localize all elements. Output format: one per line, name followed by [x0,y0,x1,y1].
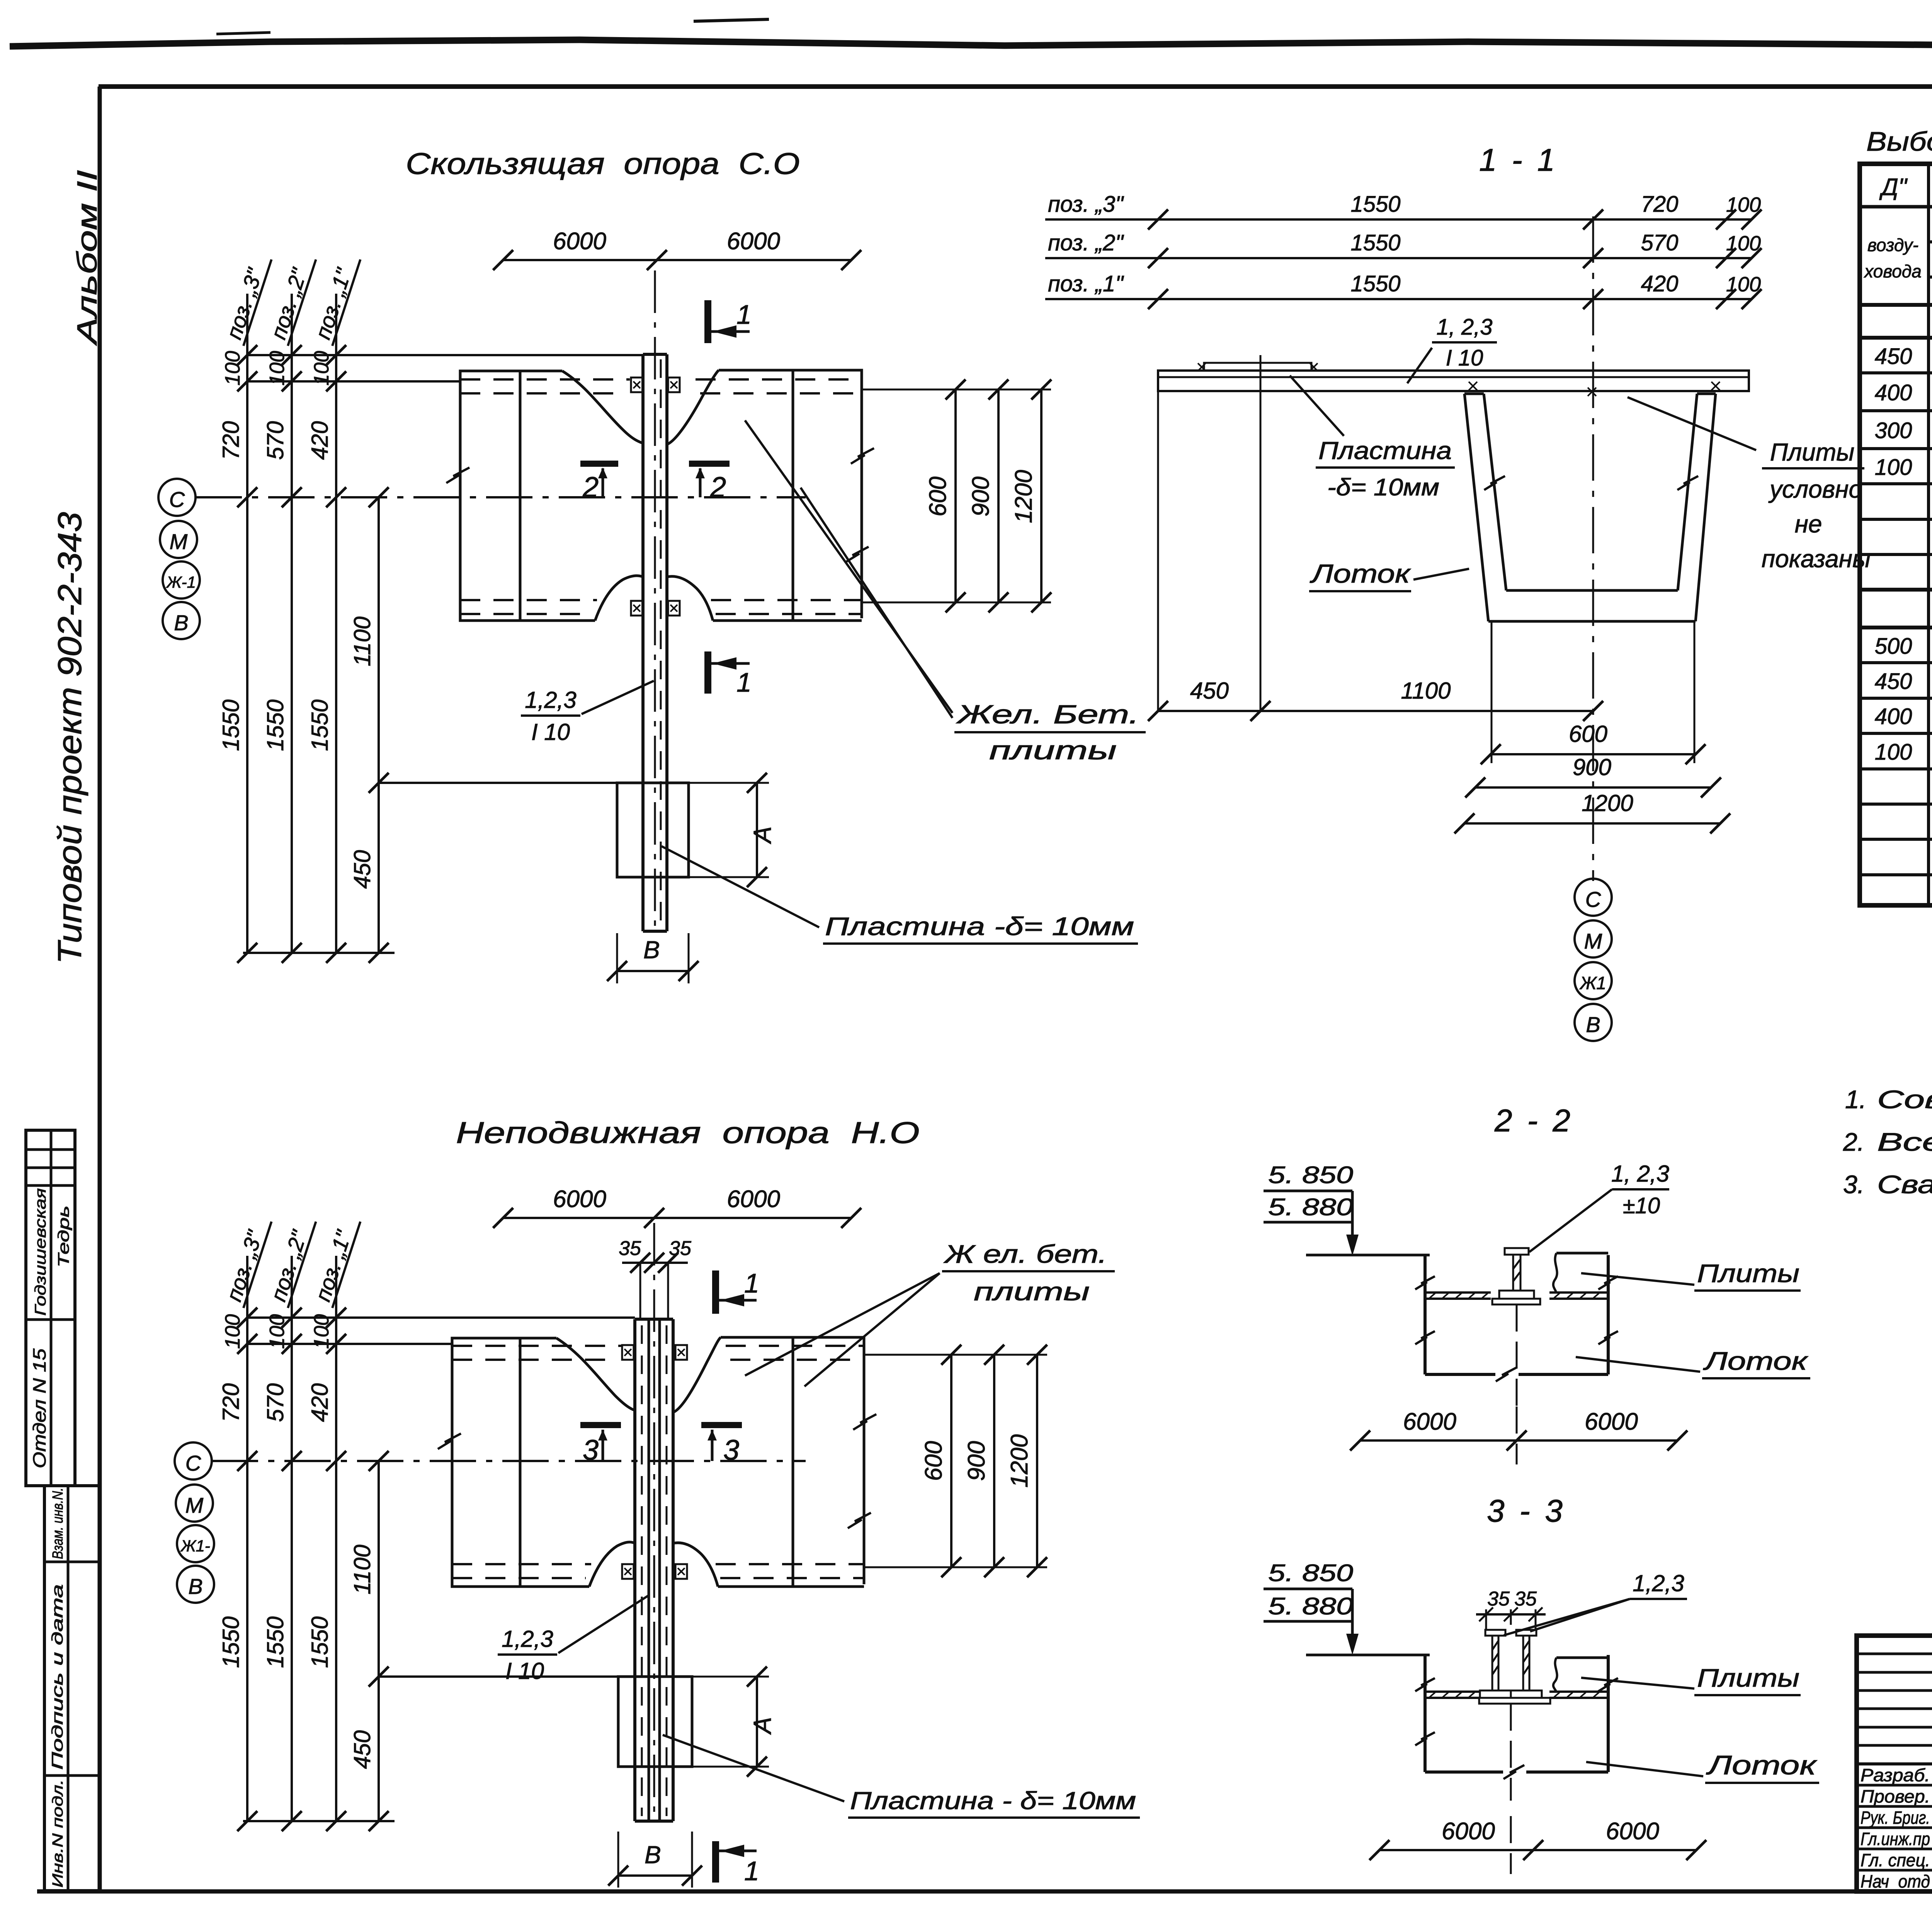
svg-text:450: 450 [1190,678,1229,704]
right dim 1200 (bottom drawing) [1036,1355,1038,1567]
svg-text:С: С [169,487,185,512]
dim chain vertical 1100/450 (bottom drawing) [378,1461,380,1821]
svg-text:1200: 1200 [1010,470,1037,523]
section mark 1 top (bottom drawing) [712,1270,719,1314]
svg-text:3 - 3: 3 - 3 [1487,1493,1566,1529]
svg-text:Гл. спец.: Гл. спец. [1861,1850,1930,1870]
svg-text:Лоток: Лоток [1703,1347,1809,1375]
dim A extension lines (top drawing) [689,782,769,784]
section 1-1 axis circle Ж [1575,962,1612,999]
лоток bottom line (2-2) [1425,1373,1495,1376]
svg-text:Инв.N подл.: Инв.N подл. [50,1779,66,1888]
sidebar stamp lower row lines [44,1561,99,1563]
svg-text:6000: 6000 [1442,1818,1495,1845]
table vertical lines left half [1927,164,1930,905]
svg-text:Все сварные швы h= 6 мм.: Все сварные швы h= 6 мм. [1877,1128,1932,1156]
section 1-1 top cover plate [1204,363,1311,371]
svg-text:6000: 6000 [553,1186,606,1213]
svg-text:Неподвижная опора Н.О: Неподвижная опора Н.О [456,1116,920,1150]
table header horizontal lines [1860,205,1932,209]
svg-text:1: 1 [736,299,752,330]
svg-text:Жел. Бет.: Жел. Бет. [956,700,1139,729]
plate top recess curve left (top drawing) [562,371,643,443]
svg-text:5. 880: 5. 880 [1268,1194,1353,1221]
right dim extension lines (top drawing) [862,389,1051,391]
plate hidden lines top-right (bottom drawing) [726,1345,864,1347]
axis centerline C (bottom drawing) [212,1460,806,1462]
svg-text:450: 450 [1875,669,1912,694]
right dim 600 (top drawing) [954,389,957,602]
svg-text:100: 100 [221,351,244,386]
dim B line (top drawing) [617,970,689,972]
svg-text:6000: 6000 [727,228,780,255]
axis circle C (top drawing) [158,479,196,516]
section 1-1 dim 600 [1491,622,1493,763]
dim chain bottom line (top drawing) [243,952,395,954]
svg-text:2: 2 [582,471,599,503]
axis circle В (bottom drawing) [177,1566,214,1603]
sidebar stamp upper row lines [26,1148,75,1151]
svg-text:3.: 3. [1843,1170,1864,1199]
лоток bottom line (3-3) [1425,1770,1503,1774]
svg-text:720: 720 [218,421,244,460]
svg-text:100: 100 [265,351,289,386]
svg-text:Лоток: Лоток [1706,1750,1818,1780]
svg-text:Разраб.: Разраб. [1861,1765,1930,1785]
svg-text:А: А [748,1717,776,1735]
base plate (2-2) [1492,1299,1540,1304]
svg-text:1550: 1550 [1350,230,1400,255]
svg-text:100: 100 [1726,193,1761,216]
plate hidden lines bottom-right (top drawing) [711,599,862,601]
section 1-1 center axis [1592,216,1594,881]
drawing frame border [99,84,1932,89]
svg-text:720: 720 [1641,192,1679,217]
svg-text:100: 100 [1726,273,1761,296]
svg-text:плиты: плиты [974,1277,1090,1306]
axis circle M (bottom drawing) [176,1485,213,1522]
svg-text:А: А [748,827,776,845]
svg-text:100: 100 [310,351,333,386]
air duct centerlines (bottom drawing) [641,1325,643,1816]
dim A line (bottom drawing) [756,1677,758,1767]
svg-text:Альбом II: Альбом II [72,170,103,346]
svg-text:Плиты: Плиты [1770,438,1854,466]
svg-text:400: 400 [1875,704,1912,729]
svg-text:6000: 6000 [1403,1408,1456,1435]
elevation arrow (2-2) [1351,1191,1354,1242]
svg-text:Совместно с данным см. л.л: Совместно с данным см. л.л. Кж-54÷ 57 [1877,1085,1932,1114]
leader lines Жел.Бет. плиты (top drawing) [745,420,952,713]
rotated label поз.3 (top drawing) [220,252,272,346]
right dim 1200 (top drawing) [1040,389,1043,602]
dim 35+35 (bottom drawing) [622,1262,688,1264]
plate break marks right edge (bottom drawing) [853,1414,876,1430]
dim 6000+6000 (3-3) [1379,1849,1696,1851]
title block thin rows upper-left [1857,1653,1932,1655]
svg-text:Сварку вести электродами Э4: Сварку вести электродами Э42, ГОСТ 9467-… [1877,1170,1932,1199]
svg-text:5. 880: 5. 880 [1268,1593,1353,1620]
svg-text:Типовой проект 902-2-343: Типовой проект 902-2-343 [51,512,88,964]
svg-text:1200: 1200 [1582,790,1633,816]
svg-text:100: 100 [1726,232,1761,255]
dim B extension lines (top drawing) [616,933,618,983]
section 1-1 лоток left wall [1464,394,1488,621]
svg-text:1550: 1550 [1350,192,1400,217]
svg-text:Плиты: Плиты [1697,1663,1799,1692]
svg-text:900: 900 [968,476,994,516]
centerline below beam (2-2) [1516,1304,1518,1406]
svg-text:I 10: I 10 [531,719,570,745]
right dim 900 (top drawing) [997,389,1000,602]
title block outer box [1857,1636,1932,1891]
svg-text:В: В [174,611,188,635]
dim chain vertical поз.2 (bottom drawing) [291,1256,293,1821]
plate break mark left edge (bottom drawing) [438,1434,461,1449]
section 1-1 лоток right wall [1696,394,1716,621]
weld boxes at duct (top drawing) [631,378,643,392]
svg-text:450: 450 [349,850,375,889]
air duct beam (top drawing) [641,354,645,931]
centerline below beams (3-3) [1510,1704,1512,1801]
section 1-1 weld x-marks [1469,382,1477,390]
right dim 600 (bottom drawing) [950,1355,952,1567]
dim chain 450 upper boundary line (bottom drawing) [379,1675,618,1678]
section mark 2 right (top drawing) [689,461,730,467]
right dim extension lines (bottom drawing) [864,1354,1047,1356]
axis circle В (top drawing) [163,602,200,639]
svg-text:1550: 1550 [307,1616,333,1668]
dim B line (bottom drawing) [618,1874,692,1877]
dim line top 100-offset (bottom drawing) [247,1316,635,1319]
svg-text:100: 100 [310,1314,333,1349]
svg-text:М: М [185,1493,204,1517]
table band 14 аэраторов boundaries [1860,588,1932,592]
лоток walls (2-2) [1423,1255,1427,1374]
svg-text:6000: 6000 [727,1186,780,1213]
svg-text:I 10: I 10 [505,1658,544,1684]
leader lines Жел.бет. плиты (bottom drawing) [745,1273,940,1376]
wall break marks (2-2) [1415,1276,1435,1289]
right плита with broken edge (2-2) [1556,1252,1608,1255]
svg-text:1, 2,3: 1, 2,3 [1436,315,1492,340]
section mark 3 right (bottom drawing) [701,1422,742,1428]
svg-text:2: 2 [710,471,726,503]
svg-text:6000: 6000 [1606,1818,1659,1845]
svg-text:1550: 1550 [1350,271,1400,296]
svg-text:2 - 2: 2 - 2 [1494,1103,1573,1138]
plate joint line right (bottom drawing) [792,1337,794,1587]
I-beam (2-2) [1505,1248,1529,1255]
section 1-1 dim 1200 [1464,822,1720,825]
svg-text:Гл.инж.пр: Гл.инж.пр [1861,1829,1930,1849]
svg-text:плиты: плиты [989,736,1117,765]
svg-text:5. 850: 5. 850 [1268,1560,1353,1587]
svg-text:1100: 1100 [1401,678,1451,704]
svg-text:Годзишевская: Годзишевская [32,1188,49,1316]
svg-text:1.: 1. [1845,1085,1866,1114]
svg-text:900: 900 [1573,754,1611,780]
sidebar stamp lower column divider [67,1486,70,1891]
svg-text:6000: 6000 [1585,1408,1638,1435]
svg-text:450: 450 [349,1730,375,1769]
plate break mark left edge (top drawing) [446,468,469,483]
table band 7 аэраторов boundary [1860,336,1932,340]
axis circle Ж-1 (top drawing) [163,561,200,599]
svg-text:Ж-1: Ж-1 [166,573,196,591]
plate bottom dome curve left (top drawing) [595,576,643,621]
svg-text:450: 450 [1875,344,1912,369]
svg-text:Скользящая опора С.О: Скользящая опора С.О [406,146,800,180]
svg-text:Пластина: Пластина [1318,437,1452,464]
plate hidden lines bottom-left (bottom drawing) [452,1563,591,1565]
section 1-1 axis circle В [1575,1004,1612,1041]
I-beam right (3-3) [1516,1630,1536,1636]
support plate (bottom drawing) [618,1677,692,1767]
table outer frame [1860,164,1932,905]
plate joint line left (top drawing) [519,371,522,621]
svg-text:Лоток: Лоток [1310,559,1411,588]
section 1-1 leader 1,2,3 [1407,348,1432,383]
svg-text:100: 100 [1875,455,1912,480]
plate group right outline (bottom drawing) [718,1337,864,1587]
svg-text:Пластина -δ= 10мм: Пластина -δ= 10мм [825,912,1134,940]
axis circle C (bottom drawing) [175,1442,212,1480]
dim A line (top drawing) [756,783,758,877]
leader Пластина (top drawing) [662,846,819,927]
dim chain vertical поз.1 (top drawing) [335,294,337,953]
double air duct beams (bottom drawing) [633,1319,636,1821]
svg-text:Взам. инв.N.: Взам. инв.N. [50,1488,66,1559]
dim chain vertical поз.3 (bottom drawing) [246,1256,248,1821]
title block signature row lines [1857,1784,1932,1787]
section 1-1 wall break marks [1484,476,1505,490]
svg-text:3: 3 [723,1434,739,1466]
svg-text:Провер.: Провер. [1861,1786,1930,1806]
svg-text:1550: 1550 [262,699,288,751]
level line (3-3) [1306,1654,1430,1656]
svg-text:1100: 1100 [349,1544,375,1594]
rotated label поз.1 (bottom drawing) [309,1214,361,1308]
section 1-1 лоток bottom slab [1506,589,1678,592]
svg-text:100: 100 [1875,740,1912,765]
svg-text:условно: условно [1768,475,1862,503]
svg-text:Выборка пластин - δ= 10мм п: Выборка пластин - δ= 10мм под опоры на 1… [1866,126,1932,156]
svg-text:ховода: ховода [1864,261,1922,281]
svg-text:Д": Д" [1879,174,1908,201]
table data row lines [1860,371,1932,374]
svg-text:6000: 6000 [553,228,606,255]
svg-text:35: 35 [669,1237,692,1260]
section mark 3 left (bottom drawing) [580,1422,621,1428]
svg-text:420: 420 [307,1383,333,1422]
svg-text:Тедрь: Тедрь [55,1206,72,1267]
svg-text:Плиты: Плиты [1697,1259,1799,1287]
section 1-1 dim 450/1100 line [1158,710,1593,712]
svg-text:1550: 1550 [262,1616,288,1668]
svg-text:600: 600 [920,1441,947,1481]
plate top recess curve left (bottom drawing) [556,1338,635,1410]
svg-text:Пластина - δ= 10мм: Пластина - δ= 10мм [850,1787,1136,1815]
svg-text:1: 1 [744,1856,759,1886]
svg-text:не: не [1795,510,1822,538]
section mark 1 top (top drawing) [704,300,711,343]
svg-text:В: В [1586,1012,1600,1037]
svg-text:570: 570 [1641,230,1679,255]
plate group left outline (top drawing) [460,371,595,621]
section 1-1 dim 900 [1475,786,1711,789]
dim chain vertical поз.1 (bottom drawing) [335,1256,337,1821]
svg-text:Подпись и дата: Подпись и дата [49,1584,66,1770]
svg-text:900: 900 [963,1441,990,1481]
svg-text:100: 100 [265,1314,289,1349]
svg-text:показаны: показаны [1762,545,1871,573]
plate joint line right (top drawing) [792,370,794,621]
svg-text:М: М [170,529,188,554]
support plate (top drawing) [617,783,689,877]
leader Пластина (bottom drawing) [663,1735,844,1801]
svg-text:1, 2,3: 1, 2,3 [1611,1161,1669,1187]
axis circle M (top drawing) [160,521,197,558]
plate hidden lines bottom-left (top drawing) [460,599,597,601]
svg-text:300: 300 [1875,418,1912,443]
svg-text:400: 400 [1875,380,1912,405]
dim 6000+6000 line (top drawing) [503,259,851,261]
plate group left outline (bottom drawing) [452,1338,589,1587]
svg-text:В: В [643,936,660,964]
svg-text:1,2,3: 1,2,3 [1633,1570,1684,1596]
svg-text:1,2,3: 1,2,3 [525,687,576,713]
svg-text:поз. „3": поз. „3" [1048,192,1124,217]
sidebar stamp upper box [26,1130,75,1486]
svg-text:5. 850: 5. 850 [1268,1162,1353,1189]
right плита with broken edge (3-3) [1556,1656,1608,1659]
svg-text:поз. „2": поз. „2" [1048,230,1124,255]
svg-text:-δ= 10мм: -δ= 10мм [1327,474,1439,501]
weld boxes at duct (bottom drawing) [622,1345,634,1360]
section 1-1 slab plates [1158,371,1749,391]
svg-text:1100: 1100 [349,616,375,666]
plate bottom dome curve right (bottom drawing) [673,1543,718,1587]
svg-text:1550: 1550 [218,699,244,751]
rotated label поз.2 (top drawing) [265,252,316,346]
section 1-1 extension vertical left [1157,391,1159,711]
svg-text:35: 35 [619,1237,641,1260]
svg-text:возду-: возду- [1867,235,1918,255]
air duct hidden line (top drawing) [660,359,662,925]
svg-text:600: 600 [925,476,951,516]
svg-text:1550: 1550 [218,1616,244,1668]
section 1-1 leader Плиты [1628,397,1756,450]
plate top recess curve right (top drawing) [667,370,719,444]
section mark 1 bottom (bottom drawing) [712,1841,719,1883]
dim 6000+6000 line (bottom drawing) [503,1217,851,1219]
svg-text:1550: 1550 [307,699,333,751]
svg-text:720: 720 [218,1383,244,1422]
svg-text:35: 35 [1514,1588,1537,1610]
axis circle Ж1 (bottom drawing) [177,1525,214,1562]
svg-text:Ж1-: Ж1- [180,1537,210,1555]
I-beam left (3-3) [1485,1630,1505,1636]
screed band (2-2) [1425,1291,1491,1294]
plate break marks right edge (top drawing) [851,448,874,464]
svg-text:1200: 1200 [1006,1434,1033,1488]
svg-text:С: С [185,1451,201,1475]
right dim 900 (bottom drawing) [993,1355,995,1567]
svg-text:Ж1: Ж1 [1579,973,1606,993]
svg-text:570: 570 [262,421,288,460]
rotated label поз.1 (top drawing) [309,252,361,346]
dim chain bottom line (bottom drawing) [243,1820,395,1822]
plate hidden lines top-left (bottom drawing) [452,1345,621,1347]
section mark 2 left (top drawing) [580,461,618,467]
air duct centerline (top drawing) [654,270,656,927]
wall break marks (3-3) [1415,1678,1435,1691]
dim 6000+6000 (2-2) [1360,1439,1677,1442]
dim chain vertical поз.2 (top drawing) [291,294,293,953]
svg-text:420: 420 [1641,271,1679,296]
elevation arrow (3-3) [1351,1589,1354,1641]
leader 1,2,3 (bottom drawing) [558,1595,649,1653]
level line (2-2) [1306,1254,1430,1257]
section mark 1 bottom (top drawing) [704,651,711,694]
sidebar stamp upper column divider [50,1130,53,1486]
svg-text:500: 500 [1875,634,1912,659]
section 1-1 extension vertical 450 mark [1260,355,1262,711]
torn paper top edge [10,40,1932,46]
лоток walls (3-3) [1423,1655,1427,1772]
svg-text:С: С [1585,887,1601,912]
torn edge small dashes [694,19,769,21]
svg-text:420: 420 [307,421,333,460]
plate top recess curve right (bottom drawing) [673,1337,721,1412]
svg-text:М: М [1584,929,1602,953]
rotated label поз.3 (bottom drawing) [220,1214,272,1308]
sidebar stamp lower box [44,1486,99,1891]
axis centerline C (top drawing) [196,496,806,498]
screed band (3-3) [1425,1690,1480,1693]
plate group right outline (top drawing) [713,370,862,621]
svg-text:1: 1 [744,1268,759,1298]
svg-text:2.: 2. [1843,1128,1864,1156]
svg-text:поз. „1": поз. „1" [1048,271,1124,296]
svg-text:570: 570 [262,1383,288,1422]
dim 35+35 (3-3) [1485,1609,1487,1630]
section 1-1 leader Пластина [1290,376,1344,436]
svg-text:600: 600 [1569,721,1607,747]
svg-text:I 10: I 10 [1446,345,1483,371]
svg-text:1,2,3: 1,2,3 [502,1626,553,1652]
dim B extension lines (bottom drawing) [617,1832,619,1888]
plate joint line left (bottom drawing) [519,1338,522,1587]
leader 1,2,3 (top drawing) [582,681,654,714]
plate hidden lines top-right (top drawing) [696,378,862,381]
plate bottom dome curve left (bottom drawing) [589,1542,635,1587]
svg-text:100: 100 [221,1314,244,1349]
svg-text:±10: ±10 [1623,1193,1660,1218]
svg-text:Нач отд: Нач отд [1861,1871,1930,1891]
dim chain 450 upper boundary line (top drawing) [379,782,617,784]
svg-text:35: 35 [1487,1588,1510,1610]
svg-text:1 - 1: 1 - 1 [1479,143,1558,178]
rotated label поз.2 (bottom drawing) [265,1214,316,1308]
dim A extension lines (bottom drawing) [692,1676,769,1678]
svg-text:В: В [645,1841,661,1869]
section 1-1 axis circle C [1575,879,1612,916]
svg-text:Ж ел. бет.: Ж ел. бет. [943,1240,1107,1268]
plate bottom dome curve right (top drawing) [667,577,713,621]
plate hidden lines top-left (top drawing) [460,378,630,381]
